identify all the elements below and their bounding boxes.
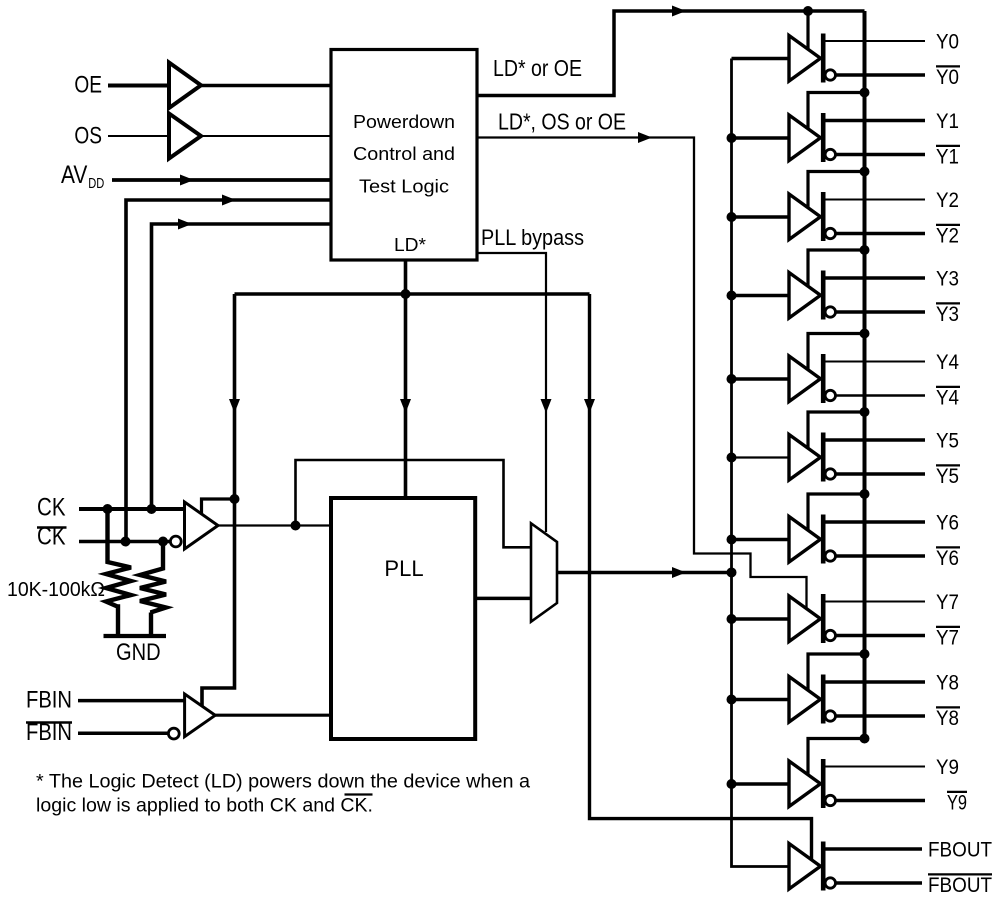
- output buffer Y4: [789, 356, 821, 402]
- junction CK resistor tap: [103, 504, 113, 514]
- node Y5bar: [936, 465, 960, 488]
- svg-text:CK: CK: [37, 494, 66, 522]
- wire LD* from control box: [404, 260, 408, 294]
- wire CK sense to control box: [152, 219, 332, 510]
- svg-text:Y2: Y2: [936, 225, 959, 248]
- junction input bus Y6: [727, 535, 737, 545]
- junction LD* rail: [401, 289, 411, 299]
- wire input Y3: [732, 294, 790, 297]
- node Y3: [936, 268, 959, 291]
- buffer CK input (differential): [185, 502, 219, 549]
- svg-text:FBOUT: FBOUT: [928, 839, 992, 862]
- wire output Y6: [826, 520, 926, 523]
- node OS: [74, 123, 102, 150]
- junction CK buffer enable: [230, 494, 240, 504]
- svg-text:Y5: Y5: [936, 465, 959, 488]
- node Y9bar: [947, 792, 967, 815]
- mux U3: [531, 523, 557, 621]
- resistor R2 10K-100k: [140, 542, 166, 637]
- svg-text:LD* or OE: LD* or OE: [493, 55, 582, 81]
- svg-text:Y4: Y4: [936, 387, 959, 410]
- svg-text:OE: OE: [74, 72, 102, 99]
- junction input bus Y9: [727, 779, 737, 789]
- junction input bus Y2: [727, 212, 737, 222]
- wire enable to buffer Y2: [808, 172, 865, 210]
- node AVDD: [61, 161, 104, 192]
- node Y8: [936, 672, 959, 695]
- svg-text:Y9: Y9: [936, 756, 959, 779]
- output buffer Y7: [789, 596, 821, 642]
- output stage bar Y9: [821, 759, 826, 808]
- footnote logic detect note line 2: [36, 795, 373, 817]
- svg-text:Y0: Y0: [936, 31, 959, 54]
- junction mux output to bus: [727, 567, 737, 577]
- junction enable bus Y3: [860, 245, 870, 255]
- output stage bar Y6: [821, 515, 826, 564]
- output buffer Y2: [789, 194, 821, 240]
- output buffer FBOUT: [789, 844, 821, 890]
- wire FBINbar input: [78, 732, 168, 736]
- bubble Y0 complement: [825, 70, 835, 80]
- junction input bus Y7: [727, 614, 737, 624]
- output buffer Y3: [789, 273, 821, 319]
- svg-text:Y8: Y8: [936, 707, 959, 730]
- buffer OS: [169, 114, 201, 159]
- wire output Y6bar: [836, 554, 925, 558]
- node Y8bar: [936, 707, 960, 730]
- svg-text:DD: DD: [88, 175, 104, 192]
- bubble Y1 complement: [825, 149, 835, 159]
- bubble Y3 complement: [825, 307, 835, 317]
- node Y2bar: [936, 225, 960, 248]
- wire enable to buffer Y1: [808, 93, 865, 131]
- output buffer Y9: [789, 761, 821, 807]
- ground GND: [104, 636, 167, 666]
- node Y5: [936, 430, 959, 453]
- wire enable to buffer Y3: [808, 250, 865, 288]
- node Y7: [936, 591, 959, 614]
- node FBINbar: [26, 719, 72, 746]
- wire input Y2: [732, 215, 790, 218]
- svg-text:Y1: Y1: [936, 146, 959, 169]
- wire CKbar sense to control box: [126, 195, 331, 543]
- svg-text:Y6: Y6: [936, 547, 959, 570]
- svg-text:Y5: Y5: [936, 430, 959, 453]
- wire FBIN buffer output to PLL: [215, 714, 331, 717]
- svg-text:Y1: Y1: [936, 110, 959, 133]
- node Y4: [936, 351, 959, 374]
- node FBOUT: [928, 839, 992, 862]
- label resistor value: [7, 579, 105, 601]
- wire OE input: [108, 84, 169, 88]
- bubble Y6 complement: [825, 551, 835, 561]
- wire input Y8: [732, 698, 790, 701]
- svg-text:AV: AV: [61, 161, 88, 189]
- junction CK sense tap: [147, 504, 157, 514]
- svg-text:Y0: Y0: [936, 66, 959, 89]
- node FBIN: [26, 687, 72, 714]
- wire OE to control box: [200, 84, 331, 87]
- wire enable to buffer Y5: [808, 412, 865, 450]
- buffer input bus (vertical): [732, 59, 790, 867]
- junction input bus Y3: [727, 291, 737, 301]
- net LD*, OS or OE label: [498, 109, 626, 135]
- wire output Y3bar: [836, 310, 925, 314]
- bubble Y2 complement: [825, 228, 835, 238]
- junction CKbar resistor tap: [158, 537, 168, 547]
- svg-text:Control and: Control and: [353, 144, 455, 164]
- junction CKbar sense tap: [121, 537, 131, 547]
- junction input bus Y1: [727, 133, 737, 143]
- wire output Y5: [826, 438, 926, 441]
- svg-text:Y3: Y3: [936, 268, 959, 291]
- output buffer Y0: [789, 36, 821, 82]
- wire output Y8bar: [836, 714, 925, 718]
- wire LD*, OS or OE to Y7 buffer enable: [477, 132, 807, 610]
- bubble CKbar input: [170, 536, 181, 547]
- node Y0bar: [936, 66, 960, 89]
- wire output Y2bar: [836, 232, 925, 236]
- wire CK buffer enable stub: [202, 499, 235, 514]
- wire input Y0: [732, 57, 790, 60]
- wire CK bypass to mux: [296, 460, 532, 547]
- node Y2: [936, 189, 959, 212]
- wire mux output to buffer input bus: [557, 567, 732, 578]
- node Y3bar: [936, 303, 960, 326]
- wire output Y1: [826, 119, 926, 122]
- svg-text:Y7: Y7: [936, 591, 959, 614]
- wire output Y0: [826, 40, 926, 42]
- wire output Y4bar: [836, 394, 925, 397]
- svg-text:Y6: Y6: [936, 512, 959, 535]
- junction enable bus Y2: [860, 167, 870, 177]
- wire output FBOUT: [826, 847, 923, 851]
- wire input Y7: [732, 617, 790, 620]
- output stage bar FBOUT: [821, 842, 826, 891]
- node CKbar: [37, 523, 67, 551]
- output stage bar Y7: [821, 594, 826, 643]
- wire input Y1: [732, 136, 790, 139]
- wire enable to buffer Y8: [808, 654, 865, 692]
- bubble Y4 complement: [825, 390, 835, 400]
- svg-text:Y7: Y7: [936, 627, 959, 650]
- wire PLL bypass to mux select: [477, 253, 552, 532]
- wire input Y6: [732, 538, 790, 541]
- wire AVDD to control box: [112, 175, 331, 186]
- node Y7bar: [936, 627, 960, 650]
- wire output Y9bar: [836, 799, 925, 803]
- svg-text:* The Logic Detect (LD) powers: * The Logic Detect (LD) powers down the …: [36, 772, 530, 793]
- wire output Y2: [826, 199, 926, 201]
- output buffer Y6: [789, 517, 821, 563]
- wire LD* to CK and FBIN buffer enables: [202, 294, 240, 706]
- output stage bar Y2: [821, 192, 826, 241]
- wire LD* to FBOUT buffer enable: [584, 294, 812, 860]
- junction enable bus Y6: [860, 489, 870, 499]
- node Y1bar: [936, 146, 960, 169]
- svg-text:OS: OS: [74, 123, 102, 150]
- wire output Y8: [826, 680, 926, 683]
- output buffer Y5: [789, 435, 821, 481]
- output stage bar Y8: [821, 675, 826, 724]
- wire LD* to PLL: [400, 294, 411, 498]
- junction enable bus Y5: [860, 407, 870, 417]
- output stage bar Y0: [821, 34, 826, 83]
- node OE: [74, 72, 102, 99]
- output stage bar Y1: [821, 113, 826, 162]
- svg-text:10K-100kΩ: 10K-100kΩ: [7, 579, 105, 601]
- svg-text:LD*: LD*: [394, 235, 426, 255]
- wire input Y4: [732, 377, 790, 380]
- net PLL bypass label: [481, 225, 584, 250]
- node Y9: [936, 756, 959, 779]
- junction enable bus Y8: [860, 649, 870, 659]
- wire LD* horizontal rail: [235, 292, 590, 296]
- bubble Y7 complement: [825, 630, 835, 640]
- node Y6: [936, 512, 959, 535]
- svg-text:Y4: Y4: [936, 351, 959, 374]
- node FBOUTbar: [928, 874, 992, 897]
- junction CK bypass tap: [291, 521, 301, 531]
- svg-text:FBIN: FBIN: [26, 687, 72, 714]
- bubble FBOUT complement: [825, 878, 835, 888]
- enable bus (right vertical): [863, 11, 867, 738]
- node Y0: [936, 31, 959, 54]
- svg-text:Y2: Y2: [936, 189, 959, 212]
- svg-text:Y3: Y3: [936, 303, 959, 326]
- wire enable to buffer Y6: [808, 494, 865, 532]
- wire output Y7: [826, 601, 926, 603]
- output stage bar Y5: [821, 433, 826, 482]
- output buffer Y8: [789, 677, 821, 723]
- svg-text:FBOUT: FBOUT: [928, 874, 992, 897]
- bubble FBINbar input: [168, 728, 179, 739]
- node CK: [37, 494, 66, 522]
- wire output Y7bar: [836, 634, 925, 638]
- wire OS to control box: [200, 135, 331, 137]
- wire output Y4: [826, 361, 926, 363]
- svg-text:Test Logic: Test Logic: [359, 177, 449, 197]
- junction input bus Y5: [727, 453, 737, 463]
- wire input Y5: [732, 456, 790, 458]
- output stage bar Y4: [821, 354, 826, 403]
- buffer OE: [169, 63, 201, 109]
- svg-text:Y8: Y8: [936, 672, 959, 695]
- svg-text:logic low is applied to both C: logic low is applied to both CK and CK.: [36, 796, 373, 817]
- wire LD* or OE to top bus: [477, 6, 865, 96]
- wire OS input: [108, 135, 169, 137]
- buffer FBIN (differential): [185, 694, 216, 737]
- footnote logic detect note line 1: [36, 772, 530, 793]
- wire PLL output to mux: [475, 597, 531, 601]
- bubble Y5 complement: [825, 469, 835, 479]
- wire output Y9: [826, 766, 926, 768]
- output buffer Y1: [789, 115, 821, 161]
- net LD* or OE label: [493, 55, 582, 81]
- wire enable to buffer Y0: [806, 11, 809, 51]
- wire output Y3: [826, 276, 926, 279]
- wire input Y9: [732, 782, 790, 785]
- svg-text:PLL: PLL: [384, 556, 423, 581]
- wire output Y5bar: [836, 472, 925, 476]
- wire output FBOUTbar: [836, 881, 922, 885]
- svg-text:PLL bypass: PLL bypass: [481, 225, 584, 250]
- bubble Y9 complement: [825, 795, 835, 805]
- node Y4bar: [936, 387, 960, 410]
- svg-text:Y9: Y9: [947, 792, 967, 815]
- node Y6bar: [936, 547, 960, 570]
- wire CK buffer output to PLL: [218, 524, 331, 526]
- junction enable bus Y0: [803, 6, 813, 16]
- wire output Y0bar: [836, 73, 925, 77]
- bubble Y8 complement: [825, 711, 835, 721]
- wire output Y1bar: [836, 153, 925, 157]
- wire CK input: [79, 507, 185, 511]
- junction input bus Y4: [727, 374, 737, 384]
- svg-text:GND: GND: [116, 639, 161, 666]
- resistor R1 10K-100k: [106, 509, 131, 636]
- output stage bar Y3: [821, 271, 826, 320]
- wire CKbar input: [79, 540, 171, 544]
- junction input bus Y8: [727, 695, 737, 705]
- wire enable to buffer Y4: [808, 334, 865, 372]
- powerdown control and test logic block U1: [331, 50, 477, 261]
- wire enable to buffer Y9: [808, 739, 865, 777]
- junction enable bus Y4: [860, 329, 870, 339]
- junction enable bus Y9: [860, 734, 870, 744]
- svg-text:LD*, OS or OE: LD*, OS or OE: [498, 109, 626, 135]
- node Y1: [936, 110, 959, 133]
- PLL block U2: [331, 498, 475, 739]
- junction enable bus Y1: [860, 88, 870, 98]
- wire FBIN input: [78, 699, 185, 703]
- svg-text:Powerdown: Powerdown: [353, 112, 455, 132]
